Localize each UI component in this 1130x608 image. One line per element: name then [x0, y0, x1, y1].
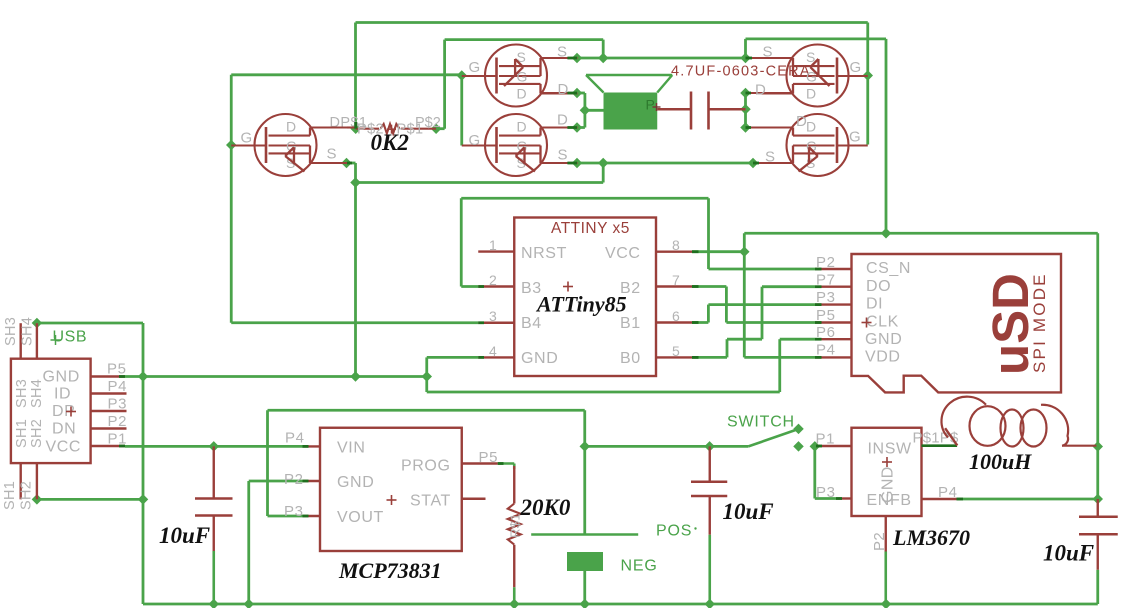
U4 pin name VIN — [337, 440, 365, 457]
U2 logo SPI MODE — [1030, 272, 1049, 373]
U4 net label P5 — [479, 449, 499, 466]
junction gate net at Q2 — [457, 70, 468, 81]
capacitor C1 leads — [213, 446, 215, 604]
junction shield bottom link — [138, 494, 149, 505]
capacitor C2 plates — [691, 482, 727, 496]
J1 label SH1 bottom — [2, 481, 18, 510]
svg-text:P2: P2 — [108, 413, 128, 430]
wire VCC riser right — [746, 39, 887, 233]
svg-text:SH3: SH3 — [3, 317, 19, 346]
svg-text:SH2: SH2 — [19, 481, 35, 510]
U1 pin name B4 — [521, 315, 542, 332]
U2 net label P4 — [816, 342, 836, 359]
U4 pin name PROG — [401, 458, 451, 475]
svg-text:SH4: SH4 — [20, 317, 36, 346]
svg-text:ATTINY x5: ATTINY x5 — [551, 220, 630, 237]
wire USB shield top — [37, 323, 1098, 604]
U1 pin number 5 — [672, 343, 680, 359]
U1 pin name B2 — [620, 280, 641, 297]
svg-text:DI: DI — [866, 296, 883, 313]
svg-text:1: 1 — [489, 237, 497, 253]
svg-text:10uF: 10uF — [1043, 541, 1094, 566]
svg-text:ID: ID — [54, 386, 71, 403]
label C1 value 10uF — [159, 523, 210, 548]
svg-text:4: 4 — [489, 343, 497, 359]
U1 pin 3 lead — [478, 322, 514, 324]
svg-text:MCP73831: MCP73831 — [338, 558, 442, 583]
wire net N$2 resistor right to top S rail — [436, 40, 603, 129]
svg-text:P: P — [646, 97, 655, 113]
wire net uSD GND — [427, 339, 815, 392]
svg-text:VCC: VCC — [605, 245, 641, 262]
svg-text:GND: GND — [880, 466, 897, 503]
junction bottom S rail a — [572, 158, 583, 169]
resistor R2 leads — [498, 464, 515, 605]
svg-text:P4: P4 — [938, 484, 958, 501]
junction VOUT net at switch — [580, 441, 591, 452]
U3 pin name FB — [890, 492, 912, 509]
svg-text:VOUT: VOUT — [337, 509, 384, 526]
svg-text:POS: POS — [656, 523, 692, 540]
junction top S rail b — [598, 53, 609, 64]
J1 label SH2 bottom — [19, 481, 35, 510]
Q4 drain lead ext — [746, 92, 794, 94]
label Q5 D — [796, 113, 807, 130]
svg-text:5: 5 — [672, 343, 680, 359]
junction GND rail at Q-source drop — [350, 371, 361, 382]
U4 pin VIN lead — [303, 445, 321, 447]
U2 pin name DO — [866, 278, 891, 295]
U2 pin DO lead — [815, 286, 852, 288]
Q3 gate lead — [462, 144, 497, 146]
svg-text:INSW: INSW — [868, 441, 912, 458]
U1 pin name VCC — [605, 245, 641, 262]
wire USB shield bottom — [37, 498, 143, 501]
label C2 value 10uF — [723, 499, 774, 524]
U3 origin cross — [882, 457, 892, 467]
battery BAT1 positive plate — [531, 533, 638, 535]
U4 net label P3 — [284, 503, 304, 520]
junction rail at C1 — [209, 599, 220, 608]
U3 pin EN lead P3 — [836, 497, 852, 499]
svg-text:S: S — [327, 146, 338, 163]
junction rail at R2 — [509, 599, 520, 608]
svg-text:S: S — [765, 149, 776, 166]
U2 origin cross — [862, 318, 872, 328]
svg-text:NEG: NEG — [621, 558, 658, 575]
Q1 gate lead — [231, 144, 266, 146]
svg-text:10uF: 10uF — [723, 499, 774, 524]
junction speaker tap — [580, 105, 591, 116]
svg-text:S: S — [763, 44, 774, 61]
wire battery neg to rail — [583, 571, 586, 604]
J1 shield stub SH1 — [20, 463, 22, 499]
wire net DP$1 top rail — [356, 23, 868, 145]
junction rail at battery — [580, 599, 591, 608]
svg-text:20K0: 20K0 — [520, 495, 571, 520]
junction GND rail at shield drop — [138, 371, 149, 382]
junction D-right top — [740, 88, 751, 99]
J1 pin P3 lead — [91, 410, 127, 412]
U3 net label P4 — [938, 484, 958, 501]
J1 pin name DP — [52, 403, 75, 420]
svg-text:2: 2 — [489, 272, 497, 288]
Q5 drain lead ext — [746, 126, 794, 128]
U4 net label P2 — [284, 471, 304, 488]
svg-text:SH1: SH1 — [2, 481, 18, 510]
U2 net label P5 — [816, 307, 836, 324]
U3 value LM3670 — [892, 525, 970, 550]
wire single FET source link — [347, 163, 604, 377]
Q3 source lead ext — [541, 162, 578, 164]
svg-text:GND: GND — [865, 331, 902, 348]
label Q2 S — [557, 44, 568, 61]
U3 pin GND lead P2 — [885, 516, 887, 604]
U3 pin name EN — [867, 492, 890, 509]
J1 shield stub SH2 — [36, 463, 38, 499]
junction VCC right rail at L1 — [1093, 441, 1104, 452]
wire net B3 to CS_N — [461, 198, 815, 286]
junction D-right bottom — [740, 122, 751, 133]
wire VIN net — [125, 445, 303, 448]
U2 net label P6 — [816, 324, 836, 341]
uSD card U2 outline — [852, 254, 1062, 392]
junction at P1 — [810, 441, 821, 452]
U1 pin 4 lead — [478, 356, 514, 358]
U4 pin name STAT — [410, 493, 451, 510]
junction rail at C2 — [705, 599, 716, 608]
resistor R1 0K2 body — [356, 124, 436, 134]
U4 pin STAT lead — [462, 498, 486, 500]
charger U4 MCP73831 box — [320, 428, 462, 551]
junction Q1 source — [341, 158, 352, 169]
U2 logo uSD — [982, 273, 1039, 375]
J1 origin cross — [66, 407, 76, 417]
label Q3 S — [558, 147, 569, 164]
svg-text:PROG: PROG — [401, 458, 451, 475]
J1 shield stub SH3 — [20, 323, 22, 359]
svg-text:SH3: SH3 — [14, 379, 30, 408]
U1 title ATTINY x5 — [551, 220, 630, 237]
regulator U3 LM3670 box — [852, 428, 922, 516]
wire gate net left — [231, 75, 478, 323]
U1 pin name B1 — [620, 315, 641, 332]
U1 pin number 1 — [489, 237, 497, 253]
U3 net label P1 — [816, 431, 836, 448]
svg-text:D: D — [806, 119, 817, 135]
Q4 source lead ext — [746, 57, 794, 59]
switch S1 blade — [748, 430, 797, 447]
svg-text:G: G — [241, 130, 253, 147]
junction rail at U3 gnd — [881, 599, 892, 608]
svg-text:GND: GND — [43, 369, 80, 386]
switch S1 pole dot — [793, 424, 804, 435]
label NEG — [621, 558, 658, 575]
label L1 value 100uH — [969, 449, 1032, 474]
resistor R2 20K0 body — [508, 504, 521, 545]
label R1 pin P$1 right — [397, 122, 424, 138]
label R1 pin P$2 left — [357, 122, 384, 138]
junction rail at MCP gnd drop — [244, 599, 255, 608]
Q4 gate lead — [837, 75, 868, 77]
speaker SP1 pin label P — [646, 97, 661, 113]
wire net B2 to CLK — [692, 287, 815, 323]
label Q5 S — [765, 149, 776, 166]
junction GND rail at ATtiny — [422, 371, 433, 382]
U1 pin 2 lead — [478, 285, 514, 287]
Q5 source lead ext — [753, 162, 793, 164]
U1 origin cross — [563, 282, 573, 292]
svg-text:7: 7 — [672, 272, 680, 288]
J1 net label P1 — [108, 431, 128, 448]
U1 pin number 2 — [489, 272, 497, 288]
svg-text:6: 6 — [672, 308, 680, 324]
junction VCC mid — [881, 228, 892, 239]
junction D-left bottom — [572, 122, 583, 133]
label Q2 D — [558, 81, 569, 98]
J1 shield stub SH4 — [36, 323, 38, 359]
label Q4 S — [763, 44, 774, 61]
junction shield top pin — [32, 318, 43, 329]
wire D rail left of speaker — [577, 93, 604, 128]
U2 pin name CS_N — [866, 260, 911, 277]
U1 pin name GND — [521, 350, 558, 367]
junction S-bottom link — [350, 177, 361, 188]
J1 pin name GND — [43, 369, 80, 386]
capacitor C3 plates — [1079, 517, 1118, 535]
svg-text:4.7UF-0603-CERA: 4.7UF-0603-CERA — [671, 64, 811, 80]
U2 pin DI lead — [815, 303, 852, 305]
U1 pin number 7 — [672, 272, 680, 288]
Q3 drain lead ext — [541, 126, 578, 128]
svg-text:S: S — [557, 44, 568, 61]
capacitor C3 leads — [1097, 499, 1099, 570]
U4 value MCP73831 — [338, 558, 442, 583]
wire VCC right rail — [1096, 233, 1099, 446]
svg-text:100uH: 100uH — [969, 449, 1032, 474]
junction switch feed at C2 — [704, 441, 715, 452]
label Q1 G — [241, 130, 253, 147]
Q2 drain lead ext — [541, 92, 578, 94]
J1 pin name DN — [52, 421, 76, 438]
wire net B1 to DI — [692, 305, 815, 323]
svg-text:G: G — [806, 138, 818, 154]
svg-text:P3: P3 — [108, 396, 128, 413]
U3 net label P3 — [816, 484, 836, 501]
label Q4 D — [755, 82, 766, 99]
svg-text:D: D — [517, 119, 528, 135]
U4 pin name GND — [337, 474, 374, 491]
svg-text:8: 8 — [672, 237, 680, 253]
U4 pin name VOUT — [337, 509, 384, 526]
transistor Q1 — [255, 114, 348, 176]
U3 pin INSW lead P1 — [816, 445, 852, 447]
junction D-right mid — [740, 104, 751, 115]
capacitor C4 leads — [657, 108, 745, 110]
Q1 drain lead — [310, 126, 356, 128]
op-amp U1 ATtiny85 box — [514, 218, 656, 377]
J1 label SH4 top — [20, 317, 36, 346]
switch S1 contact dot — [793, 441, 804, 452]
svg-text:P5: P5 — [107, 361, 127, 378]
speaker SP1 cone — [586, 75, 672, 93]
U1 pin number 8 — [672, 237, 680, 253]
U2 net label P7 — [816, 272, 836, 289]
svg-text:VCC: VCC — [46, 439, 82, 456]
svg-text:G: G — [517, 138, 529, 154]
J1 net label P5 — [107, 361, 127, 378]
U2 pin CLK lead — [815, 321, 852, 323]
label Q3 G — [469, 132, 481, 149]
J1 net label P3 — [108, 396, 128, 413]
wire gate net drop to Q3 — [460, 76, 463, 146]
svg-text:USB: USB — [53, 329, 88, 346]
junction on DP$1 at Q4 gate — [863, 70, 874, 81]
svg-text:VIN: VIN — [337, 440, 365, 457]
wire MCP GND net — [249, 481, 303, 604]
U2 pin name CLK — [866, 314, 899, 331]
junction bottom S rail b — [598, 158, 609, 169]
label Q4 G — [850, 59, 862, 76]
svg-text:GND: GND — [337, 474, 374, 491]
svg-text:VDD: VDD — [865, 349, 901, 366]
U4 origin cross — [387, 495, 397, 505]
svg-text:B0: B0 — [620, 350, 641, 367]
junction D-left top — [572, 88, 583, 99]
capacitor C4 plates — [691, 92, 709, 130]
inductor L1 100uH — [941, 397, 1096, 447]
U2 pin CS_N lead — [815, 268, 852, 270]
svg-text:P2: P2 — [871, 532, 888, 551]
wire bottom S rail — [577, 162, 753, 165]
svg-text:LM3670: LM3670 — [892, 525, 970, 550]
label R2 name rotated — [508, 513, 523, 538]
label R1 net P$2 — [415, 115, 441, 131]
svg-text:P4: P4 — [285, 430, 305, 447]
label R1 net DP$1 — [330, 115, 368, 131]
svg-text:D: D — [557, 112, 568, 129]
U1 pin name B0 — [620, 350, 641, 367]
svg-text:3: 3 — [489, 308, 497, 324]
junction top S rail a — [572, 53, 583, 64]
svg-text:DN: DN — [52, 421, 76, 438]
svg-text:10uF: 10uF — [159, 523, 210, 548]
label Q2 G — [469, 59, 481, 76]
wire net B0 to DO — [692, 287, 815, 358]
U1 pin number 4 — [489, 343, 497, 359]
transistor Q4 — [756, 45, 849, 107]
wire VOUT net — [268, 410, 585, 534]
battery BAT1 negative plate — [567, 552, 603, 571]
svg-text:P2: P2 — [284, 471, 304, 488]
U4 net label P4 — [285, 430, 305, 447]
label R1 value 0K2 — [371, 130, 409, 155]
capacitor C2 leads — [709, 446, 711, 604]
U1 pin 7 lead — [656, 285, 692, 287]
svg-text:SPI MODE: SPI MODE — [1030, 272, 1049, 373]
U1 pin name NRST — [521, 245, 567, 262]
J1 inside SH3 — [14, 379, 30, 408]
svg-text:SH1: SH1 — [14, 419, 30, 448]
label POS — [656, 523, 697, 540]
junction VCC pin8 — [739, 246, 750, 257]
junction resistor right — [431, 123, 442, 134]
junction gate net at Q1 — [226, 140, 237, 151]
U2 net label P2 — [816, 254, 836, 271]
svg-text:S: S — [558, 147, 569, 164]
junction VIN at C1 — [209, 441, 220, 452]
connector J1 USB box — [11, 359, 91, 463]
svg-text:ATTiny85: ATTiny85 — [535, 292, 627, 317]
label C3 value 10uF — [1043, 541, 1094, 566]
J1 pin name ID — [54, 386, 71, 403]
svg-text:GND: GND — [521, 350, 558, 367]
svg-text:NRST: NRST — [521, 245, 567, 262]
Q2 source lead ext — [541, 57, 578, 59]
label R2 value 20K0 — [520, 495, 571, 520]
J1 net label P4 — [108, 378, 128, 395]
svg-text:G: G — [849, 129, 861, 146]
U1 pin number 3 — [489, 308, 497, 324]
J1 pin P4 lead — [91, 392, 127, 394]
wire D rail right of cap — [744, 93, 747, 128]
wire VCC pin8 — [692, 250, 744, 253]
svg-text:D: D — [286, 119, 297, 135]
junction bottom S rail c — [748, 158, 759, 169]
U3 pin name INSW — [868, 441, 912, 458]
J1 inside SH1 — [14, 419, 30, 448]
U2 pin VDD lead — [815, 356, 852, 358]
svg-text:G: G — [850, 59, 862, 76]
U3 net label P2 rotated — [871, 532, 888, 551]
U2 pin name GND — [865, 331, 902, 348]
svg-text:G: G — [286, 138, 298, 154]
junction top S rail c — [740, 53, 751, 64]
U4 pin PROG lead — [462, 462, 498, 464]
U2 net label P3 — [816, 289, 836, 306]
wire FB net — [957, 498, 1098, 501]
svg-text:P5: P5 — [479, 449, 499, 466]
label C4 value 4.7UF-0603-CERA — [671, 64, 811, 80]
wire GND rail — [125, 357, 478, 376]
svg-text:P4: P4 — [816, 342, 836, 359]
wire VCC top link — [744, 233, 1097, 251]
U2 pin name DI — [866, 296, 883, 313]
junction on DP$1 at resistor left — [350, 123, 361, 134]
svg-text:P4: P4 — [108, 378, 128, 395]
J1 pin name VCC — [46, 439, 82, 456]
svg-text:B4: B4 — [521, 315, 542, 332]
svg-text:D: D — [558, 81, 569, 98]
svg-text:0K2: 0K2 — [371, 130, 409, 155]
label Q3 D — [557, 112, 568, 129]
capacitor C1 plates — [195, 499, 233, 516]
U3 pin SW lead — [922, 444, 958, 447]
U2 pin name VDD — [865, 349, 901, 366]
svg-text:STAT: STAT — [410, 493, 451, 510]
U1 pin number 6 — [672, 308, 680, 324]
svg-text:D: D — [806, 86, 817, 102]
U3 pin name GND rotated — [880, 466, 897, 503]
wire top S rail — [577, 57, 746, 60]
U3 pin FB lead P4 — [922, 498, 957, 500]
junction shield bottom pin — [32, 494, 43, 505]
wire P1 to EN loop — [815, 446, 836, 498]
svg-text:DO: DO — [866, 278, 891, 295]
svg-text:P3: P3 — [284, 503, 304, 520]
svg-text:P$2: P$2 — [415, 115, 441, 131]
J1 net label P2 — [108, 413, 128, 430]
